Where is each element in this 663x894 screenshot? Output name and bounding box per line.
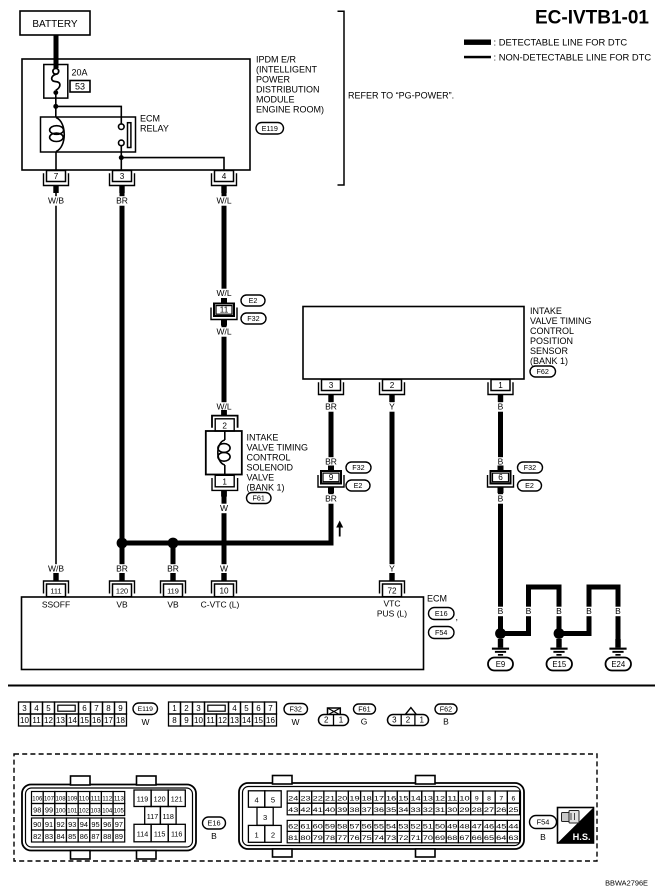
wire relay contact to pin 3 (thin) [120, 152, 122, 171]
label G for F61 [361, 717, 368, 727]
svg-text:VB: VB [116, 600, 128, 610]
label B for F54 [540, 832, 546, 842]
svg-text:15: 15 [398, 795, 408, 802]
svg-text:109: 109 [67, 796, 77, 803]
svg-text:(BANK 1): (BANK 1) [530, 356, 568, 366]
svg-text:POWER: POWER [256, 75, 291, 85]
connector ref E2 at splice 9 [346, 480, 370, 491]
svg-text:4: 4 [232, 704, 237, 713]
svg-text:VTC: VTC [384, 599, 401, 609]
svg-text:INTAKE: INTAKE [247, 433, 279, 443]
svg-text:6: 6 [82, 704, 87, 713]
svg-text:54: 54 [386, 824, 396, 831]
svg-text:6: 6 [256, 704, 261, 713]
svg-text:EC-IVTB1-01: EC-IVTB1-01 [535, 8, 649, 29]
svg-text:17: 17 [374, 795, 384, 802]
svg-text:19: 19 [349, 795, 359, 802]
net label B at E9 leg [496, 606, 504, 616]
svg-text:23: 23 [300, 795, 310, 802]
ECM pin 72 [380, 573, 405, 597]
fuse 20A box [44, 65, 68, 99]
svg-text:121: 121 [171, 795, 183, 804]
label ECM RELAY [140, 113, 169, 133]
svg-text:77: 77 [337, 835, 347, 842]
svg-text:58: 58 [337, 824, 347, 831]
position sensor box [303, 307, 524, 380]
connector ref E2 at splice 11 [241, 295, 265, 306]
splice connector 11 [211, 298, 237, 326]
svg-text:F62: F62 [440, 705, 452, 714]
svg-text:41: 41 [313, 807, 323, 814]
figure code BBWA2796E [605, 879, 648, 888]
wire relay output to pin 4 (thin) [121, 158, 224, 171]
svg-text:20: 20 [337, 795, 347, 802]
svg-text:35: 35 [386, 807, 396, 814]
H.S. logo [558, 808, 594, 844]
dashed detail box [14, 754, 597, 861]
svg-text:C-VTC (L): C-VTC (L) [201, 600, 240, 610]
net label B at bridge leg 2 [585, 606, 593, 616]
connector ref E119 [256, 123, 284, 135]
svg-text:49: 49 [447, 824, 457, 831]
connector ref F62 [530, 366, 556, 377]
label W for F32 [291, 717, 299, 727]
svg-text:11: 11 [447, 795, 458, 802]
svg-text:111: 111 [50, 587, 61, 596]
svg-text:60: 60 [313, 824, 323, 831]
solenoid valve body [206, 431, 242, 475]
svg-text:72: 72 [387, 587, 397, 596]
svg-text:117: 117 [147, 812, 158, 821]
net label B below splice 6 [496, 494, 504, 504]
svg-text:SOLENOID: SOLENOID [247, 463, 294, 473]
net label B at bridge leg 1 [524, 606, 532, 616]
svg-text:E15: E15 [552, 660, 567, 669]
svg-text:62: 62 [288, 824, 298, 831]
svg-text:61: 61 [300, 824, 310, 831]
svg-text:99: 99 [45, 806, 53, 815]
direction arrow up [336, 521, 343, 537]
svg-text:3: 3 [263, 813, 267, 822]
svg-text:W: W [220, 503, 228, 513]
svg-text:11: 11 [32, 716, 41, 725]
net label B above splice 6 [496, 457, 504, 467]
connector pinout F61 [319, 708, 349, 726]
wire W/B pin7 to ECM pin111 (thin) [55, 192, 57, 574]
solenoid coil [218, 431, 230, 475]
connector drawing E16 shell [22, 776, 196, 859]
svg-text:F32: F32 [352, 463, 364, 472]
svg-text:37: 37 [362, 807, 372, 814]
svg-text:15: 15 [254, 716, 263, 725]
svg-text:25: 25 [508, 807, 518, 814]
svg-text:7: 7 [268, 704, 273, 713]
svg-text:34: 34 [398, 807, 408, 814]
svg-text:7: 7 [499, 795, 503, 802]
value label 20A [72, 68, 88, 78]
svg-text:3: 3 [196, 704, 201, 713]
svg-text:84: 84 [56, 832, 64, 841]
svg-text:B: B [498, 606, 504, 616]
solenoid valve name text [247, 433, 309, 493]
svg-text:4: 4 [254, 795, 258, 804]
svg-text:12: 12 [44, 716, 53, 725]
svg-text:E2: E2 [525, 481, 534, 490]
svg-text:5: 5 [244, 704, 249, 713]
svg-text:1: 1 [254, 830, 258, 839]
wire BR branch junction to ECM pin119 (thick) [171, 543, 176, 574]
IPDM E/R box [22, 59, 250, 170]
pin name SSOFF [42, 600, 70, 610]
label W for E119 [141, 717, 149, 727]
svg-text:8: 8 [172, 716, 177, 725]
svg-text:VALVE TIMING: VALVE TIMING [247, 443, 309, 453]
battery [20, 11, 90, 35]
svg-text:B: B [556, 606, 562, 616]
svg-text:2: 2 [406, 716, 411, 725]
svg-text:80: 80 [300, 835, 310, 842]
valve pin 2 [212, 410, 238, 431]
svg-text:B: B [498, 402, 504, 412]
pin 4 (IPDM) [212, 171, 237, 194]
svg-text:BBWA2796E: BBWA2796E [605, 879, 648, 888]
net label Y below sensor [388, 402, 396, 412]
wire BR sensor pin3 to splice 9 (thick) [329, 395, 334, 466]
ground ref E24 [606, 658, 632, 671]
svg-text:9: 9 [184, 716, 189, 725]
svg-text:55: 55 [374, 824, 384, 831]
svg-text:87: 87 [91, 832, 99, 841]
wire BR horizontal run to splice 9 elbow (thick) [122, 493, 331, 543]
svg-text:E2: E2 [249, 296, 258, 305]
svg-text:REFER TO “PG-POWER”.: REFER TO “PG-POWER”. [348, 91, 454, 101]
net label BR below splice 9 [324, 494, 338, 504]
svg-text:1: 1 [222, 477, 227, 486]
wire junction to relay contact (thin) [56, 106, 122, 117]
label B for E16 [211, 831, 217, 841]
E16 pin grid right [134, 790, 185, 842]
fuse element [52, 68, 60, 95]
splice connector 9 [318, 466, 344, 494]
svg-text:BR: BR [167, 564, 179, 574]
IPDM E/R name text [256, 55, 324, 115]
svg-text:BATTERY: BATTERY [32, 19, 78, 30]
svg-text:F61: F61 [253, 494, 265, 503]
svg-text:F62: F62 [537, 367, 549, 376]
ECM box [22, 597, 424, 670]
svg-text:10: 10 [20, 716, 29, 725]
ground symbol E24 [609, 639, 626, 656]
connector ref E16 (detail) [203, 817, 226, 829]
svg-text:98: 98 [33, 806, 41, 815]
svg-text:31: 31 [435, 807, 445, 814]
svg-text:28: 28 [472, 807, 482, 814]
svg-text:E119: E119 [262, 124, 278, 133]
svg-text:MODULE: MODULE [256, 95, 295, 105]
svg-text:116: 116 [171, 830, 182, 839]
svg-text:17: 17 [104, 716, 113, 725]
ground symbol E9 [492, 639, 509, 656]
wire Y sensor pin2 to ECM pin72 (thick) [390, 395, 395, 574]
F54 pin grid right [287, 791, 519, 843]
svg-text:7: 7 [54, 172, 59, 181]
sensor pin 1 [488, 380, 513, 403]
svg-text:BR: BR [116, 196, 128, 206]
svg-text:52: 52 [411, 824, 421, 831]
svg-text:102: 102 [79, 808, 89, 815]
svg-text:SENSOR: SENSOR [530, 346, 569, 356]
net label BR above ECM pin120 [115, 564, 129, 574]
ground ref E9 [488, 658, 513, 671]
svg-text:4: 4 [34, 704, 39, 713]
svg-text:70: 70 [423, 835, 433, 842]
svg-text:83: 83 [45, 832, 53, 841]
svg-text:E24: E24 [611, 660, 626, 669]
svg-text:75: 75 [362, 835, 372, 842]
svg-text:10: 10 [459, 795, 469, 802]
position sensor name text [530, 306, 592, 366]
svg-text:2: 2 [222, 421, 227, 430]
svg-text:5: 5 [46, 704, 51, 713]
svg-text:BR: BR [116, 564, 128, 574]
svg-text:2: 2 [184, 704, 189, 713]
svg-text:16: 16 [92, 716, 101, 725]
svg-text:CONTROL: CONTROL [530, 326, 574, 336]
E16 pin grid left [32, 792, 125, 843]
svg-text:26: 26 [496, 807, 506, 814]
net label W/L below splice 11 [214, 327, 233, 337]
svg-text:119: 119 [137, 795, 148, 804]
svg-text:101: 101 [67, 808, 77, 815]
svg-text:78: 78 [325, 835, 335, 842]
svg-text:74: 74 [374, 835, 384, 842]
svg-text:120: 120 [154, 795, 166, 804]
connector ref F61 (pinout row) [354, 704, 376, 714]
svg-text:76: 76 [349, 835, 359, 842]
svg-text:12: 12 [218, 716, 227, 725]
ground ref E15 [547, 658, 573, 671]
svg-text:VALVE TIMING: VALVE TIMING [530, 316, 592, 326]
svg-text:3: 3 [392, 716, 397, 725]
connector ref E2 at splice 6 [518, 480, 542, 491]
svg-text:106: 106 [32, 796, 42, 803]
wire BR pin3 to junction (thick) [120, 192, 125, 543]
node relay output junction [119, 155, 124, 160]
relay coil [50, 118, 65, 152]
net label BR [115, 196, 129, 206]
svg-text:112: 112 [102, 796, 112, 803]
svg-text:13: 13 [230, 716, 239, 725]
ECM pin 120 [110, 573, 135, 597]
pin 3 (IPDM) [110, 171, 135, 194]
svg-text:B: B [526, 606, 532, 616]
svg-text:51: 51 [423, 824, 433, 831]
svg-text:PUS (L): PUS (L) [377, 609, 407, 619]
svg-text:B: B [540, 832, 546, 842]
net label W/L above valve [214, 402, 233, 412]
svg-text:115: 115 [154, 830, 165, 839]
svg-text:BR: BR [325, 494, 337, 504]
svg-text:39: 39 [337, 807, 347, 814]
net label W above ECM pin10 [220, 564, 228, 574]
svg-text:59: 59 [325, 824, 335, 831]
net label BR below sensor [324, 402, 338, 412]
svg-text:66: 66 [472, 835, 482, 842]
svg-text:BR: BR [325, 402, 337, 412]
svg-text:B: B [498, 494, 504, 504]
svg-text:VB: VB [167, 600, 179, 610]
svg-text:4: 4 [222, 172, 227, 181]
svg-text:103: 103 [91, 808, 101, 815]
svg-text:108: 108 [56, 796, 66, 803]
svg-text:92: 92 [56, 820, 64, 829]
svg-text:DISTRIBUTION: DISTRIBUTION [256, 85, 320, 95]
ECM pin 119 [161, 573, 186, 597]
node fuse output junction [53, 104, 58, 109]
svg-text:F32: F32 [524, 463, 536, 472]
svg-text:Y: Y [389, 402, 395, 412]
net label W below valve [220, 503, 228, 513]
svg-text:B: B [586, 606, 592, 616]
connector ref F61 [247, 493, 272, 504]
svg-text:96: 96 [103, 820, 111, 829]
svg-text:3: 3 [329, 381, 334, 390]
node ground junction E15 [554, 628, 565, 639]
svg-text:10: 10 [219, 587, 229, 596]
svg-text:W/B: W/B [48, 196, 64, 206]
svg-text:22: 22 [313, 795, 323, 802]
svg-text:F54: F54 [435, 628, 447, 637]
sensor pin 2 [380, 380, 405, 403]
svg-text:16: 16 [386, 795, 396, 802]
svg-text:POSITION: POSITION [530, 336, 573, 346]
svg-text:E119: E119 [138, 706, 154, 713]
svg-text:50: 50 [435, 824, 445, 831]
svg-text:47: 47 [472, 824, 482, 831]
svg-text:11: 11 [206, 716, 215, 725]
svg-text:Y: Y [389, 564, 395, 574]
wire B sensor pin1 to splice 6 (thick) [498, 395, 503, 465]
svg-text:63: 63 [508, 835, 518, 842]
svg-text:F61: F61 [358, 705, 370, 714]
pin name C-VTC (L) [201, 600, 240, 610]
svg-text:72: 72 [398, 835, 408, 842]
svg-text:G: G [361, 717, 368, 727]
svg-text:E9: E9 [496, 660, 506, 669]
svg-text:(INTELLIGENT: (INTELLIGENT [256, 65, 318, 75]
svg-text:13: 13 [56, 716, 65, 725]
F54 pin grid left [248, 791, 281, 843]
connector pinout F32 grid [169, 702, 277, 726]
connector pinout F62 [388, 708, 429, 726]
svg-text:71: 71 [411, 835, 421, 842]
ground symbol E15 [550, 639, 567, 656]
net label W/L above splice 11 [214, 288, 233, 298]
svg-text:82: 82 [33, 832, 41, 841]
ECM pin 111 [44, 573, 69, 597]
pin name VB (120) [116, 600, 128, 610]
bracket refer to PG-POWER [338, 11, 345, 185]
separator line [8, 685, 655, 687]
node BR junction to ECM pin120 [117, 538, 128, 549]
svg-text:W: W [291, 717, 299, 727]
svg-text:(BANK 1): (BANK 1) [247, 483, 285, 493]
svg-text:14: 14 [411, 795, 421, 802]
svg-text:43: 43 [288, 807, 298, 814]
svg-text:2: 2 [390, 381, 395, 390]
svg-text:53: 53 [398, 824, 408, 831]
svg-text:10: 10 [194, 716, 203, 725]
svg-text:2: 2 [271, 830, 275, 839]
svg-text:F54: F54 [537, 818, 550, 827]
node BR junction to ECM pin119 [168, 538, 179, 549]
svg-text:IPDM E/R: IPDM E/R [256, 55, 297, 65]
svg-text:24: 24 [288, 795, 298, 802]
svg-text:118: 118 [162, 812, 173, 821]
svg-text:38: 38 [349, 807, 359, 814]
svg-text:81: 81 [288, 835, 298, 842]
svg-text:W: W [141, 717, 149, 727]
svg-text:65: 65 [484, 835, 494, 842]
svg-text:F32: F32 [290, 705, 302, 714]
svg-text:B: B [498, 457, 504, 467]
svg-text:W: W [220, 564, 228, 574]
svg-text:67: 67 [459, 835, 469, 842]
sensor pin 3 [319, 380, 344, 403]
svg-text:79: 79 [313, 835, 323, 842]
svg-text:1: 1 [498, 381, 503, 390]
svg-text:56: 56 [362, 824, 372, 831]
svg-text:111: 111 [91, 796, 101, 803]
connector ref F32 at splice 9 [346, 462, 371, 473]
svg-text:7: 7 [94, 704, 99, 713]
svg-text:5: 5 [271, 795, 275, 804]
connector ref E16 at ECM [429, 608, 459, 623]
pin 7 (IPDM) [44, 171, 69, 194]
svg-text:6: 6 [498, 473, 503, 482]
svg-text:11: 11 [220, 306, 229, 315]
wire B bridge E15 to E24 (thick) [559, 587, 618, 644]
svg-text:95: 95 [91, 820, 99, 829]
svg-text:3: 3 [120, 172, 125, 181]
svg-text:105: 105 [114, 808, 124, 815]
svg-text:16: 16 [266, 716, 275, 725]
splice connector 6 [488, 466, 514, 494]
svg-text:73: 73 [386, 835, 396, 842]
net label W/B [46, 196, 65, 206]
connector ref F32 at splice 11 [241, 313, 266, 324]
svg-text:BR: BR [325, 457, 337, 467]
relay ECM RELAY box [41, 117, 136, 152]
svg-text:110: 110 [79, 796, 89, 803]
svg-text:ECM: ECM [427, 594, 447, 604]
net label B at E15 leg [555, 606, 563, 616]
fuse number box 53 [70, 81, 90, 93]
svg-text:27: 27 [484, 807, 494, 814]
svg-text:9: 9 [475, 795, 479, 802]
svg-text:32: 32 [423, 807, 433, 814]
svg-text:F32: F32 [247, 314, 259, 323]
svg-text:90: 90 [33, 820, 41, 829]
svg-text:30: 30 [447, 807, 457, 814]
wire B splice 6 to ground E9 (thick) [498, 493, 503, 635]
svg-text:46: 46 [484, 824, 494, 831]
svg-text:48: 48 [459, 824, 469, 831]
svg-text:18: 18 [362, 795, 372, 802]
net label W/L [214, 196, 233, 206]
connector ref F54 at ECM [429, 627, 455, 639]
svg-text:100: 100 [56, 808, 66, 815]
